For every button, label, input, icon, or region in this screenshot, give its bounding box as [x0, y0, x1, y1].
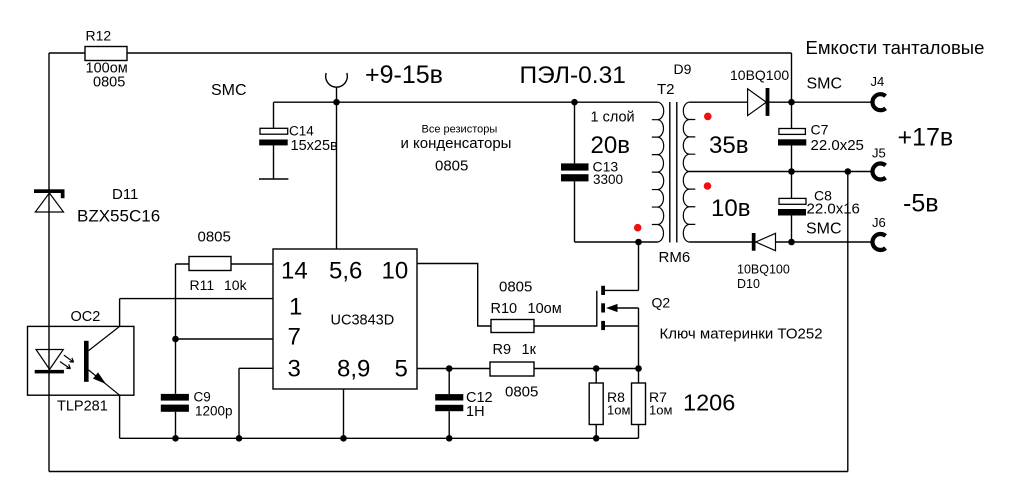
svg-text:RM6: RM6: [659, 249, 691, 266]
svg-text:D11: D11: [112, 186, 138, 203]
svg-text:10ом: 10ом: [528, 301, 562, 317]
svg-text:R9: R9: [493, 342, 512, 358]
svg-text:22.0x16: 22.0x16: [807, 201, 860, 218]
svg-text:10BQ100: 10BQ100: [737, 263, 790, 277]
svg-text:1 слой: 1 слой: [591, 110, 635, 126]
svg-text:22.0x25: 22.0x25: [811, 137, 864, 154]
svg-text:J6: J6: [872, 215, 886, 230]
svg-text:0805: 0805: [93, 75, 125, 91]
svg-text:и конденсаторы: и конденсаторы: [401, 135, 512, 152]
svg-text:UC3843D: UC3843D: [331, 313, 395, 329]
svg-text:D9: D9: [674, 61, 692, 77]
svg-text:5,6: 5,6: [329, 258, 362, 285]
svg-text:10BQ100: 10BQ100: [730, 67, 789, 83]
svg-text:SMC: SMC: [807, 76, 843, 93]
svg-text:0805: 0805: [435, 158, 468, 175]
svg-text:0805: 0805: [505, 384, 538, 401]
svg-text:20в: 20в: [591, 132, 630, 159]
svg-text:R12: R12: [86, 28, 112, 44]
svg-text:10: 10: [382, 258, 409, 285]
svg-text:ПЭЛ-0.31: ПЭЛ-0.31: [520, 62, 626, 89]
svg-text:OC2: OC2: [71, 309, 101, 325]
svg-text:Емкости танталовые: Емкости танталовые: [806, 37, 985, 58]
svg-text:D10: D10: [737, 277, 760, 291]
svg-text:10k: 10k: [224, 277, 248, 293]
svg-text:-5в: -5в: [903, 190, 939, 218]
svg-text:0805: 0805: [198, 229, 231, 246]
svg-text:0805: 0805: [499, 279, 532, 296]
svg-text:14: 14: [281, 258, 308, 285]
svg-text:3300: 3300: [593, 172, 623, 187]
svg-text:C14: C14: [289, 124, 314, 139]
svg-text:+9-15в: +9-15в: [365, 61, 443, 89]
svg-text:10в: 10в: [711, 195, 750, 222]
svg-text:3: 3: [288, 356, 301, 383]
svg-text:1к: 1к: [522, 342, 537, 358]
svg-text:1ом: 1ом: [607, 403, 630, 418]
svg-text:R10: R10: [491, 301, 518, 317]
svg-text:SMC: SMC: [806, 221, 842, 238]
svg-text:1ом: 1ом: [649, 403, 672, 418]
svg-text:+17в: +17в: [898, 124, 954, 152]
svg-text:BZX55C16: BZX55C16: [77, 207, 160, 226]
svg-text:C9: C9: [194, 390, 211, 405]
svg-text:J5: J5: [872, 146, 886, 161]
svg-text:C7: C7: [811, 122, 829, 138]
svg-text:R11: R11: [190, 277, 215, 293]
svg-text:35в: 35в: [709, 132, 748, 159]
svg-text:15x25в: 15x25в: [291, 138, 339, 154]
svg-text:7: 7: [288, 323, 301, 350]
svg-text:1H: 1H: [466, 404, 485, 420]
svg-text:5: 5: [395, 356, 408, 383]
svg-text:Ключ материнки ТО252: Ключ материнки ТО252: [660, 326, 823, 343]
svg-text:1200p: 1200p: [195, 404, 233, 419]
svg-text:Q2: Q2: [652, 295, 671, 311]
svg-text:TLP281: TLP281: [57, 399, 108, 415]
svg-text:1: 1: [289, 293, 302, 320]
svg-text:Все резисторы: Все резисторы: [422, 124, 498, 136]
svg-text:T2: T2: [657, 81, 675, 98]
svg-text:1206: 1206: [683, 390, 735, 416]
svg-text:SMC: SMC: [211, 82, 247, 99]
svg-text:J4: J4: [871, 74, 885, 89]
svg-text:8,9: 8,9: [337, 356, 370, 383]
